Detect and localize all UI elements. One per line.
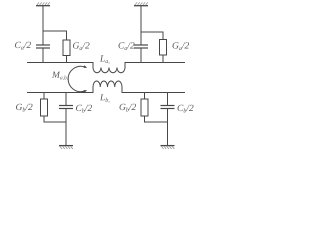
wire: capacitor C1 bottom to line a [42,48,44,63]
capacitor C4 (Cb/2 bottom-right) [161,106,175,109]
inductor La [93,62,125,73]
wire: line a left segment [27,62,93,64]
wire: line b to resistor R3 [43,93,45,100]
wire: top-left ground lead down to capacitor [42,6,44,45]
wire: resistor R1 bottom to line a [66,56,68,64]
label Mab [52,72,68,81]
wire: capacitor C4 down to ground [167,109,169,146]
label Cb/2 (bottom-right) [178,105,194,113]
wire: line b to resistor R4 [144,93,146,100]
capacitor C2 (Ca/2 top-right) [134,45,148,48]
label La [100,55,110,64]
label Ga/2 (top-right) [173,42,190,50]
mutual coupling arrow Mab [68,65,87,92]
label Ca/2 (top-right) [119,42,135,50]
capacitor C3 (Cb/2 bottom-left) [59,106,73,109]
label Gb/2 (bottom-left) [16,104,33,112]
ground (bottom-right) [161,146,175,149]
wire: branch from top-right ground lead to resistor R2 [141,32,163,40]
resistor R1 (Ga/2 top-left) [63,40,70,56]
ground (bottom-left) [59,146,73,149]
wire: resistor R3 bottom branch to capacitor column [44,116,66,122]
label Gb/2 (bottom-right) [120,104,137,112]
wire: resistor R4 bottom branch to capacitor column [145,116,168,122]
label Ga/2 (top-left) [73,42,90,50]
wire: line a right segment [125,62,185,64]
wire: capacitor C3 down to ground [65,109,67,146]
label Cb/2 (bottom-left) [76,105,92,113]
inductor Lb [93,81,122,93]
capacitor C1 (Ca/2 top-left) [36,45,50,48]
resistor R3 (Gb/2 bottom-left) [41,99,48,116]
label Ca/2 (top-left) [15,42,31,50]
wire: branch from ground lead to resistor R1 [43,31,67,40]
resistor R4 (Gb/2 bottom-right) [141,99,148,116]
wire: line b right segment [122,92,185,94]
wire: line b left segment [27,92,93,94]
wire: resistor R2 bottom to line a [162,55,164,63]
ground (top-left) [36,2,50,5]
wire: capacitor C2 bottom to line a [140,48,142,63]
wire: line b down to capacitor C4 [167,93,169,106]
label Lb [100,94,110,103]
resistor R2 (Ga/2 top-right) [160,40,167,56]
wire: top-right ground lead down to capacitor [140,6,142,45]
ground (top-right) [134,2,148,5]
wire: line b down to capacitor C3 [65,93,67,106]
